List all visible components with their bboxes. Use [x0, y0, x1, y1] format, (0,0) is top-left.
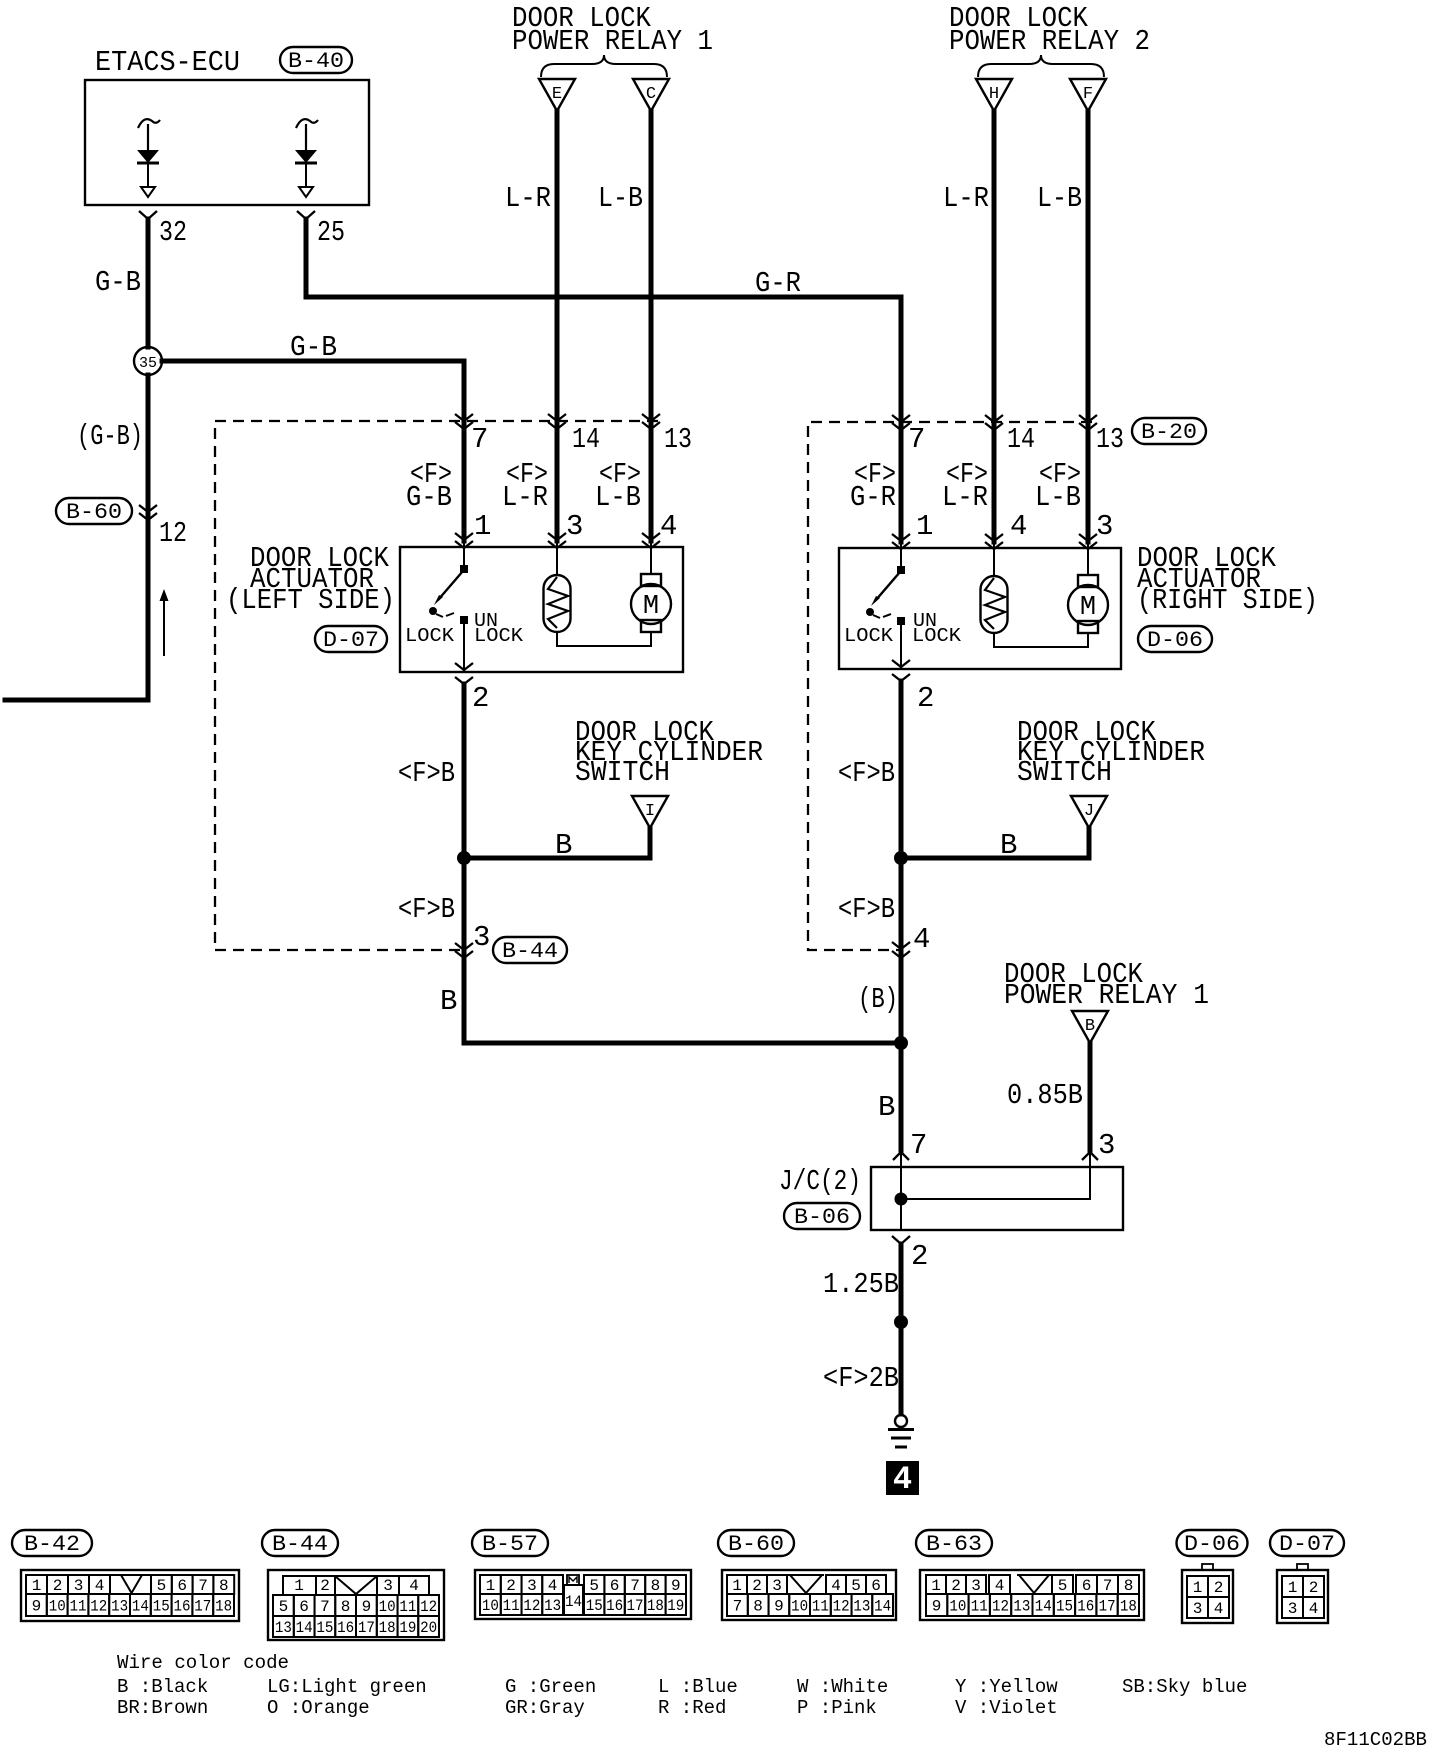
svg-text:B: B: [555, 829, 572, 862]
connector mark at left actuator box entry x=651: [642, 533, 660, 548]
dashed harness outline (right door): [808, 422, 1092, 950]
svg-text:D-06: D-06: [1147, 628, 1203, 653]
svg-text:13: 13: [853, 1598, 870, 1616]
svg-text:6: 6: [177, 1577, 187, 1595]
svg-text:L-R: L-R: [943, 182, 989, 215]
svg-text:14: 14: [132, 1598, 149, 1616]
svg-text:13: 13: [275, 1619, 292, 1637]
connector mark pin 13 (right): [1079, 415, 1097, 430]
svg-text:10: 10: [791, 1598, 808, 1616]
svg-text:19: 19: [667, 1597, 684, 1615]
svg-text:18: 18: [215, 1598, 232, 1616]
svg-text:C: C: [646, 85, 656, 104]
svg-text:D-07: D-07: [1279, 1532, 1335, 1557]
svg-text:11: 11: [971, 1598, 988, 1616]
svg-text:16: 16: [174, 1598, 191, 1616]
svg-text:8: 8: [341, 1598, 351, 1616]
coil (solenoid): [544, 575, 571, 632]
svg-text:5: 5: [1058, 1577, 1068, 1595]
motor M: [1087, 548, 1089, 576]
svg-text:6: 6: [1082, 1577, 1092, 1595]
svg-text:W :White: W :White: [797, 1676, 888, 1698]
junction dot joining both chains: [894, 1036, 908, 1050]
svg-text:4: 4: [1214, 1600, 1224, 1618]
door lock actuator box D-07: [400, 547, 683, 672]
svg-text:G-R: G-R: [850, 481, 896, 514]
svg-text:8: 8: [219, 1577, 229, 1595]
wire joining left chain to right chain: [464, 950, 901, 1043]
svg-text:2: 2: [951, 1577, 961, 1595]
connector mark pin 4 crossing: [892, 942, 910, 958]
connector mark J/C pin 2 (exit): [892, 1236, 910, 1244]
door lock actuator box D-06: [839, 548, 1121, 669]
svg-text:7: 7: [198, 1577, 208, 1595]
connector mark pin 14 (right): [985, 415, 1003, 430]
connector mark pin 25: [297, 211, 315, 219]
wire 1.25B to ground: [899, 1244, 904, 1414]
svg-text:11: 11: [503, 1597, 520, 1615]
svg-text:1: 1: [294, 1577, 304, 1595]
svg-text:D-06: D-06: [1184, 1532, 1240, 1557]
svg-text:4: 4: [95, 1577, 105, 1595]
svg-text:B-63: B-63: [926, 1532, 982, 1557]
connector pinout B-60 body: [722, 1570, 896, 1620]
diode D2 (pin 25): [296, 119, 318, 128]
svg-text:LG:Light green: LG:Light green: [267, 1676, 427, 1698]
svg-text:L :Blue: L :Blue: [658, 1676, 738, 1698]
wire from node 35 down then left off-page: [5, 375, 148, 700]
svg-text:18: 18: [647, 1597, 664, 1615]
svg-text:I: I: [645, 802, 655, 821]
svg-text:L-B: L-B: [595, 481, 641, 514]
svg-text:R :Red: R :Red: [658, 1697, 726, 1719]
svg-text:7: 7: [1103, 1577, 1113, 1595]
svg-text:8: 8: [1124, 1577, 1134, 1595]
wire to key cylinder switch J: [901, 828, 1089, 858]
connector terminal J (key cyl right): [1071, 796, 1107, 828]
wire G-R: ECU pin 25 right across to right actuator pin 1: [306, 219, 901, 542]
connector mark pin 7 (left): [455, 414, 473, 429]
node 35 (splice): [134, 347, 162, 375]
connector terminal F (relay 2): [1070, 79, 1106, 111]
svg-text:20: 20: [420, 1619, 437, 1637]
svg-text:7: 7: [471, 423, 488, 456]
diode D1 (pin 32): [138, 119, 160, 128]
connector label D-07: [315, 626, 387, 653]
wire to key cylinder switch I: [464, 828, 650, 858]
svg-text:L-B: L-B: [1037, 182, 1082, 215]
svg-text:2: 2: [917, 682, 934, 715]
svg-text:32: 32: [159, 216, 187, 249]
connector mark pin 7 (right): [892, 415, 910, 430]
connector terminal B (relay 1): [1072, 1011, 1108, 1043]
svg-text:<F>B: <F>B: [398, 893, 455, 926]
connector label B-20: [1132, 418, 1206, 445]
connector label B-63 (bottom): [916, 1530, 992, 1557]
connector label B-60: [56, 498, 132, 525]
connector mark at right actuator box entry x=1088: [1079, 534, 1097, 549]
svg-text:B-40: B-40: [288, 49, 344, 74]
flow direction arrow (up): [163, 598, 165, 656]
svg-text:E: E: [552, 85, 562, 104]
wire L-R relay2 terminal H down to right actuator pin 4: [992, 111, 997, 542]
svg-text:B-42: B-42: [24, 1532, 80, 1557]
connector mark pin 14 (left): [548, 414, 566, 429]
svg-text:4: 4: [1010, 510, 1027, 543]
svg-text:7: 7: [630, 1577, 640, 1595]
svg-text:1: 1: [486, 1577, 496, 1595]
svg-text:L-B: L-B: [1035, 481, 1081, 514]
svg-text:13: 13: [664, 423, 692, 456]
svg-text:G :Green: G :Green: [505, 1676, 596, 1698]
connector mark pin 13 (left): [642, 414, 660, 429]
svg-text:15: 15: [1056, 1598, 1073, 1616]
page reference box 4: [886, 1461, 919, 1495]
svg-text:3: 3: [1193, 1600, 1203, 1618]
svg-text:D-07: D-07: [323, 628, 379, 653]
svg-text:B: B: [878, 1091, 895, 1124]
connector label B-42 (bottom): [12, 1530, 92, 1557]
wire coil-to-motor: [557, 632, 651, 646]
svg-text:12: 12: [833, 1598, 850, 1616]
svg-text:SWITCH: SWITCH: [575, 756, 670, 789]
ground symbol: [895, 1415, 907, 1427]
svg-text:4: 4: [831, 1577, 841, 1595]
svg-text:<F>B: <F>B: [838, 893, 895, 926]
svg-text:GR:Gray: GR:Gray: [505, 1697, 585, 1719]
connector mark at right actuator box entry x=901: [892, 534, 910, 549]
svg-text:3: 3: [1288, 1600, 1298, 1618]
svg-text:7: 7: [910, 1129, 927, 1162]
svg-text:18: 18: [379, 1619, 396, 1637]
svg-text:7: 7: [320, 1598, 330, 1616]
svg-text:14: 14: [296, 1619, 313, 1637]
svg-text:B-06: B-06: [794, 1205, 850, 1230]
connector label B-57 (bottom): [472, 1530, 548, 1557]
svg-text:13: 13: [1096, 423, 1124, 456]
wire G-B from node 35 right and down to left actuator pin 1: [162, 361, 464, 541]
svg-text:10: 10: [482, 1597, 499, 1615]
connector mark J/C pin 3: [1082, 1152, 1098, 1160]
svg-text:F: F: [1083, 85, 1093, 104]
svg-text:6: 6: [871, 1577, 881, 1595]
svg-text:3: 3: [566, 510, 583, 543]
svg-text:14: 14: [874, 1598, 891, 1616]
wire B from right actuator pin 2 down: [899, 681, 904, 1150]
motor M: [650, 547, 652, 575]
svg-text:G-B: G-B: [406, 481, 452, 514]
svg-text:16: 16: [606, 1597, 623, 1615]
J/C(2) box: [871, 1167, 1123, 1230]
wire L-B relay2 terminal F down to right actuator pin 3: [1086, 111, 1091, 542]
svg-text:13: 13: [544, 1597, 561, 1615]
connector mark at right actuator box entry x=994: [985, 534, 1003, 549]
splice dot: [894, 1315, 908, 1329]
svg-text:4: 4: [995, 1577, 1005, 1595]
connector label B-40: [280, 47, 352, 74]
connector label B-44 (bottom): [262, 1530, 338, 1557]
svg-text:14: 14: [565, 1593, 582, 1611]
svg-text:11: 11: [399, 1598, 416, 1616]
svg-text:7: 7: [908, 423, 925, 456]
connector label B-44: [493, 937, 567, 964]
connector pinout B-42 body: [21, 1570, 239, 1621]
svg-text:7: 7: [733, 1598, 743, 1616]
connector mark pin 12 (B-60): [139, 505, 157, 520]
J/C internal wiring: [900, 1167, 902, 1230]
svg-text:B: B: [440, 985, 457, 1018]
svg-text:(G-B): (G-B): [77, 420, 143, 453]
svg-text:BR:Brown: BR:Brown: [117, 1697, 208, 1719]
svg-text:P :Pink: P :Pink: [797, 1697, 877, 1719]
svg-text:3: 3: [527, 1577, 537, 1595]
svg-text:B: B: [1000, 829, 1017, 862]
svg-text:L-B: L-B: [598, 182, 643, 215]
svg-text:2: 2: [752, 1577, 762, 1595]
svg-text:9: 9: [32, 1598, 42, 1616]
svg-text:4: 4: [893, 1461, 912, 1498]
svg-text:1: 1: [916, 510, 933, 543]
svg-text:POWER RELAY 2: POWER RELAY 2: [949, 25, 1150, 58]
brace relay 2: [978, 55, 1104, 77]
svg-text:J: J: [1084, 802, 1094, 821]
svg-text:B-20: B-20: [1141, 420, 1197, 445]
svg-text:H: H: [989, 85, 999, 104]
svg-text:(LEFT SIDE): (LEFT SIDE): [226, 584, 395, 617]
connector label D-07 (bottom): [1270, 1530, 1344, 1557]
svg-text:O :Orange: O :Orange: [267, 1697, 370, 1719]
wire G-B from ECU pin 32 down to node 35: [146, 219, 151, 347]
svg-text:5: 5: [589, 1577, 599, 1595]
svg-text:2: 2: [506, 1577, 516, 1595]
wire L-R relay1 terminal E down to left actuator pin 3: [555, 111, 560, 541]
svg-text:2: 2: [320, 1577, 330, 1595]
connector pinout D-06 body: [1182, 1570, 1233, 1623]
svg-text:G-B: G-B: [95, 266, 141, 299]
svg-text:2: 2: [1309, 1579, 1319, 1597]
svg-text:2: 2: [472, 682, 489, 715]
svg-text:3: 3: [473, 921, 490, 954]
svg-text:0.85B: 0.85B: [1007, 1079, 1083, 1112]
svg-text:3: 3: [1096, 510, 1113, 543]
svg-text:25: 25: [317, 216, 345, 249]
svg-text:5: 5: [851, 1577, 861, 1595]
connector terminal I (key cyl left): [632, 796, 668, 828]
svg-text:8F11C02BB: 8F11C02BB: [1324, 1729, 1427, 1751]
svg-text:G-B: G-B: [290, 331, 337, 364]
svg-text:14: 14: [1007, 423, 1035, 456]
switch LOCK/UNLOCK: [897, 566, 905, 574]
svg-text:4: 4: [548, 1577, 558, 1595]
svg-text:3: 3: [383, 1577, 393, 1595]
svg-text:1: 1: [1193, 1579, 1203, 1597]
svg-text:1: 1: [32, 1577, 42, 1595]
connector terminal H (relay 2): [976, 79, 1012, 111]
connector label B-60 (bottom): [718, 1530, 794, 1557]
brace relay 1: [541, 55, 667, 77]
svg-text:13: 13: [1013, 1598, 1030, 1616]
svg-text:V :Violet: V :Violet: [955, 1697, 1058, 1719]
svg-text:9: 9: [362, 1598, 372, 1616]
coil (solenoid): [981, 576, 1008, 633]
connector mark J/C pin 7: [893, 1152, 909, 1160]
svg-text:Wire color code: Wire color code: [117, 1652, 289, 1674]
svg-text:LOCK: LOCK: [405, 625, 455, 647]
svg-text:15: 15: [316, 1619, 333, 1637]
svg-text:B: B: [1085, 1017, 1095, 1036]
svg-text:8: 8: [753, 1598, 763, 1616]
svg-text:17: 17: [358, 1619, 375, 1637]
svg-text:6: 6: [610, 1577, 620, 1595]
svg-text:3: 3: [971, 1577, 981, 1595]
svg-text:10: 10: [49, 1598, 66, 1616]
svg-text:M: M: [1080, 593, 1096, 623]
svg-text:B-60: B-60: [66, 500, 122, 525]
svg-text:L-R: L-R: [942, 481, 988, 514]
svg-text:8: 8: [651, 1577, 661, 1595]
svg-text:35: 35: [139, 355, 157, 372]
svg-text:LOCK: LOCK: [912, 625, 962, 647]
svg-text:12: 12: [420, 1598, 437, 1616]
connector pinout B-44 body: [268, 1570, 444, 1640]
junction dot (right key cyl): [894, 851, 908, 865]
svg-text:B-60: B-60: [728, 1532, 784, 1557]
svg-text:5: 5: [157, 1577, 167, 1595]
svg-text:2: 2: [911, 1240, 928, 1273]
svg-text:11: 11: [70, 1598, 87, 1616]
svg-text:12: 12: [90, 1598, 107, 1616]
svg-text:12: 12: [992, 1598, 1009, 1616]
connector mark at left actuator box entry x=464: [455, 533, 473, 548]
svg-text:LOCK: LOCK: [844, 625, 894, 647]
svg-text:B-57: B-57: [482, 1532, 538, 1557]
svg-text:2: 2: [1214, 1579, 1224, 1597]
svg-text:3: 3: [772, 1577, 782, 1595]
svg-text:3: 3: [1098, 1129, 1115, 1162]
svg-text:4: 4: [913, 923, 930, 956]
svg-text:1: 1: [732, 1577, 742, 1595]
svg-text:L-R: L-R: [505, 182, 551, 215]
connector mark pin 2 (left actuator exit): [455, 663, 473, 684]
svg-text:4: 4: [1309, 1600, 1319, 1618]
svg-text:17: 17: [194, 1598, 211, 1616]
svg-text:LOCK: LOCK: [474, 625, 524, 647]
dashed harness outline (left door): [215, 421, 658, 950]
svg-text:SWITCH: SWITCH: [1017, 756, 1112, 789]
svg-text:2: 2: [53, 1577, 63, 1595]
svg-text:9: 9: [774, 1598, 784, 1616]
svg-text:12: 12: [523, 1597, 540, 1615]
wire B from left actuator pin 2 down: [462, 684, 467, 1043]
connector pinout B-63 body: [920, 1570, 1144, 1620]
svg-text:13: 13: [111, 1598, 128, 1616]
svg-text:<F>B: <F>B: [398, 757, 455, 790]
svg-text:17: 17: [1099, 1598, 1116, 1616]
connector pinout B-57 body: [475, 1570, 691, 1619]
wire L-B relay1 terminal C down to left actuator pin 4: [649, 111, 654, 541]
svg-text:<F>B: <F>B: [838, 757, 895, 790]
svg-text:10: 10: [379, 1598, 396, 1616]
svg-text:4: 4: [409, 1577, 419, 1595]
connector terminal E (relay 1): [539, 79, 575, 111]
svg-text:3: 3: [74, 1577, 84, 1595]
connector mark pin 3 / B-44: [455, 943, 473, 958]
svg-text:POWER RELAY 1: POWER RELAY 1: [1004, 979, 1209, 1012]
connector mark pin 2 (right actuator exit): [892, 660, 910, 681]
svg-text:L-R: L-R: [502, 481, 548, 514]
svg-text:18: 18: [1120, 1598, 1137, 1616]
svg-text:14: 14: [1035, 1598, 1052, 1616]
svg-text:16: 16: [1077, 1598, 1094, 1616]
switch LOCK/UNLOCK: [460, 565, 468, 573]
svg-text:10: 10: [949, 1598, 966, 1616]
svg-text:15: 15: [586, 1597, 603, 1615]
svg-text:POWER RELAY 1: POWER RELAY 1: [512, 25, 713, 58]
svg-text:9: 9: [932, 1598, 942, 1616]
svg-text:B-44: B-44: [272, 1532, 328, 1557]
svg-text:Y :Yellow: Y :Yellow: [955, 1676, 1058, 1698]
svg-text:19: 19: [399, 1619, 416, 1637]
svg-text:17: 17: [627, 1597, 644, 1615]
svg-text:5: 5: [279, 1598, 289, 1616]
svg-text:G-R: G-R: [755, 267, 801, 300]
svg-text:(B): (B): [858, 983, 898, 1016]
svg-text:J/C(2): J/C(2): [779, 1165, 861, 1198]
svg-text:11: 11: [812, 1598, 829, 1616]
svg-text:B-44: B-44: [502, 939, 558, 964]
svg-text:1.25B: 1.25B: [823, 1268, 899, 1301]
svg-text:B :Black: B :Black: [117, 1676, 208, 1698]
svg-text:14: 14: [572, 423, 600, 456]
connector mark at left actuator box entry x=557: [548, 533, 566, 548]
svg-text:(RIGHT SIDE): (RIGHT SIDE): [1137, 584, 1318, 617]
wire coil-to-motor: [994, 633, 1088, 647]
junction dot (left key cyl): [457, 851, 471, 865]
connector mark pin 32: [139, 211, 157, 219]
connector pinout D-07 body: [1277, 1570, 1328, 1623]
connector label D-06: [1138, 626, 1212, 653]
svg-text:9: 9: [671, 1577, 681, 1595]
svg-text:1: 1: [931, 1577, 941, 1595]
wire 0.85B from terminal B down to J/C pin 3: [1088, 1043, 1093, 1150]
svg-text:1: 1: [474, 510, 491, 543]
svg-text:12: 12: [159, 517, 187, 550]
connector label B-06: [784, 1203, 860, 1230]
svg-text:SB:Sky blue: SB:Sky blue: [1122, 1676, 1247, 1698]
svg-text:16: 16: [337, 1619, 354, 1637]
ETACS-ECU box: [85, 80, 369, 205]
svg-text:6: 6: [299, 1598, 309, 1616]
svg-text:1: 1: [1288, 1579, 1298, 1597]
svg-text:4: 4: [660, 510, 677, 543]
connector label D-06 (bottom): [1177, 1530, 1248, 1557]
connector terminal C (relay 1): [633, 79, 669, 111]
svg-text:15: 15: [153, 1598, 170, 1616]
svg-text:M: M: [643, 592, 659, 622]
svg-text:ETACS-ECU: ETACS-ECU: [95, 46, 240, 79]
svg-text:<F>2B: <F>2B: [823, 1362, 899, 1395]
